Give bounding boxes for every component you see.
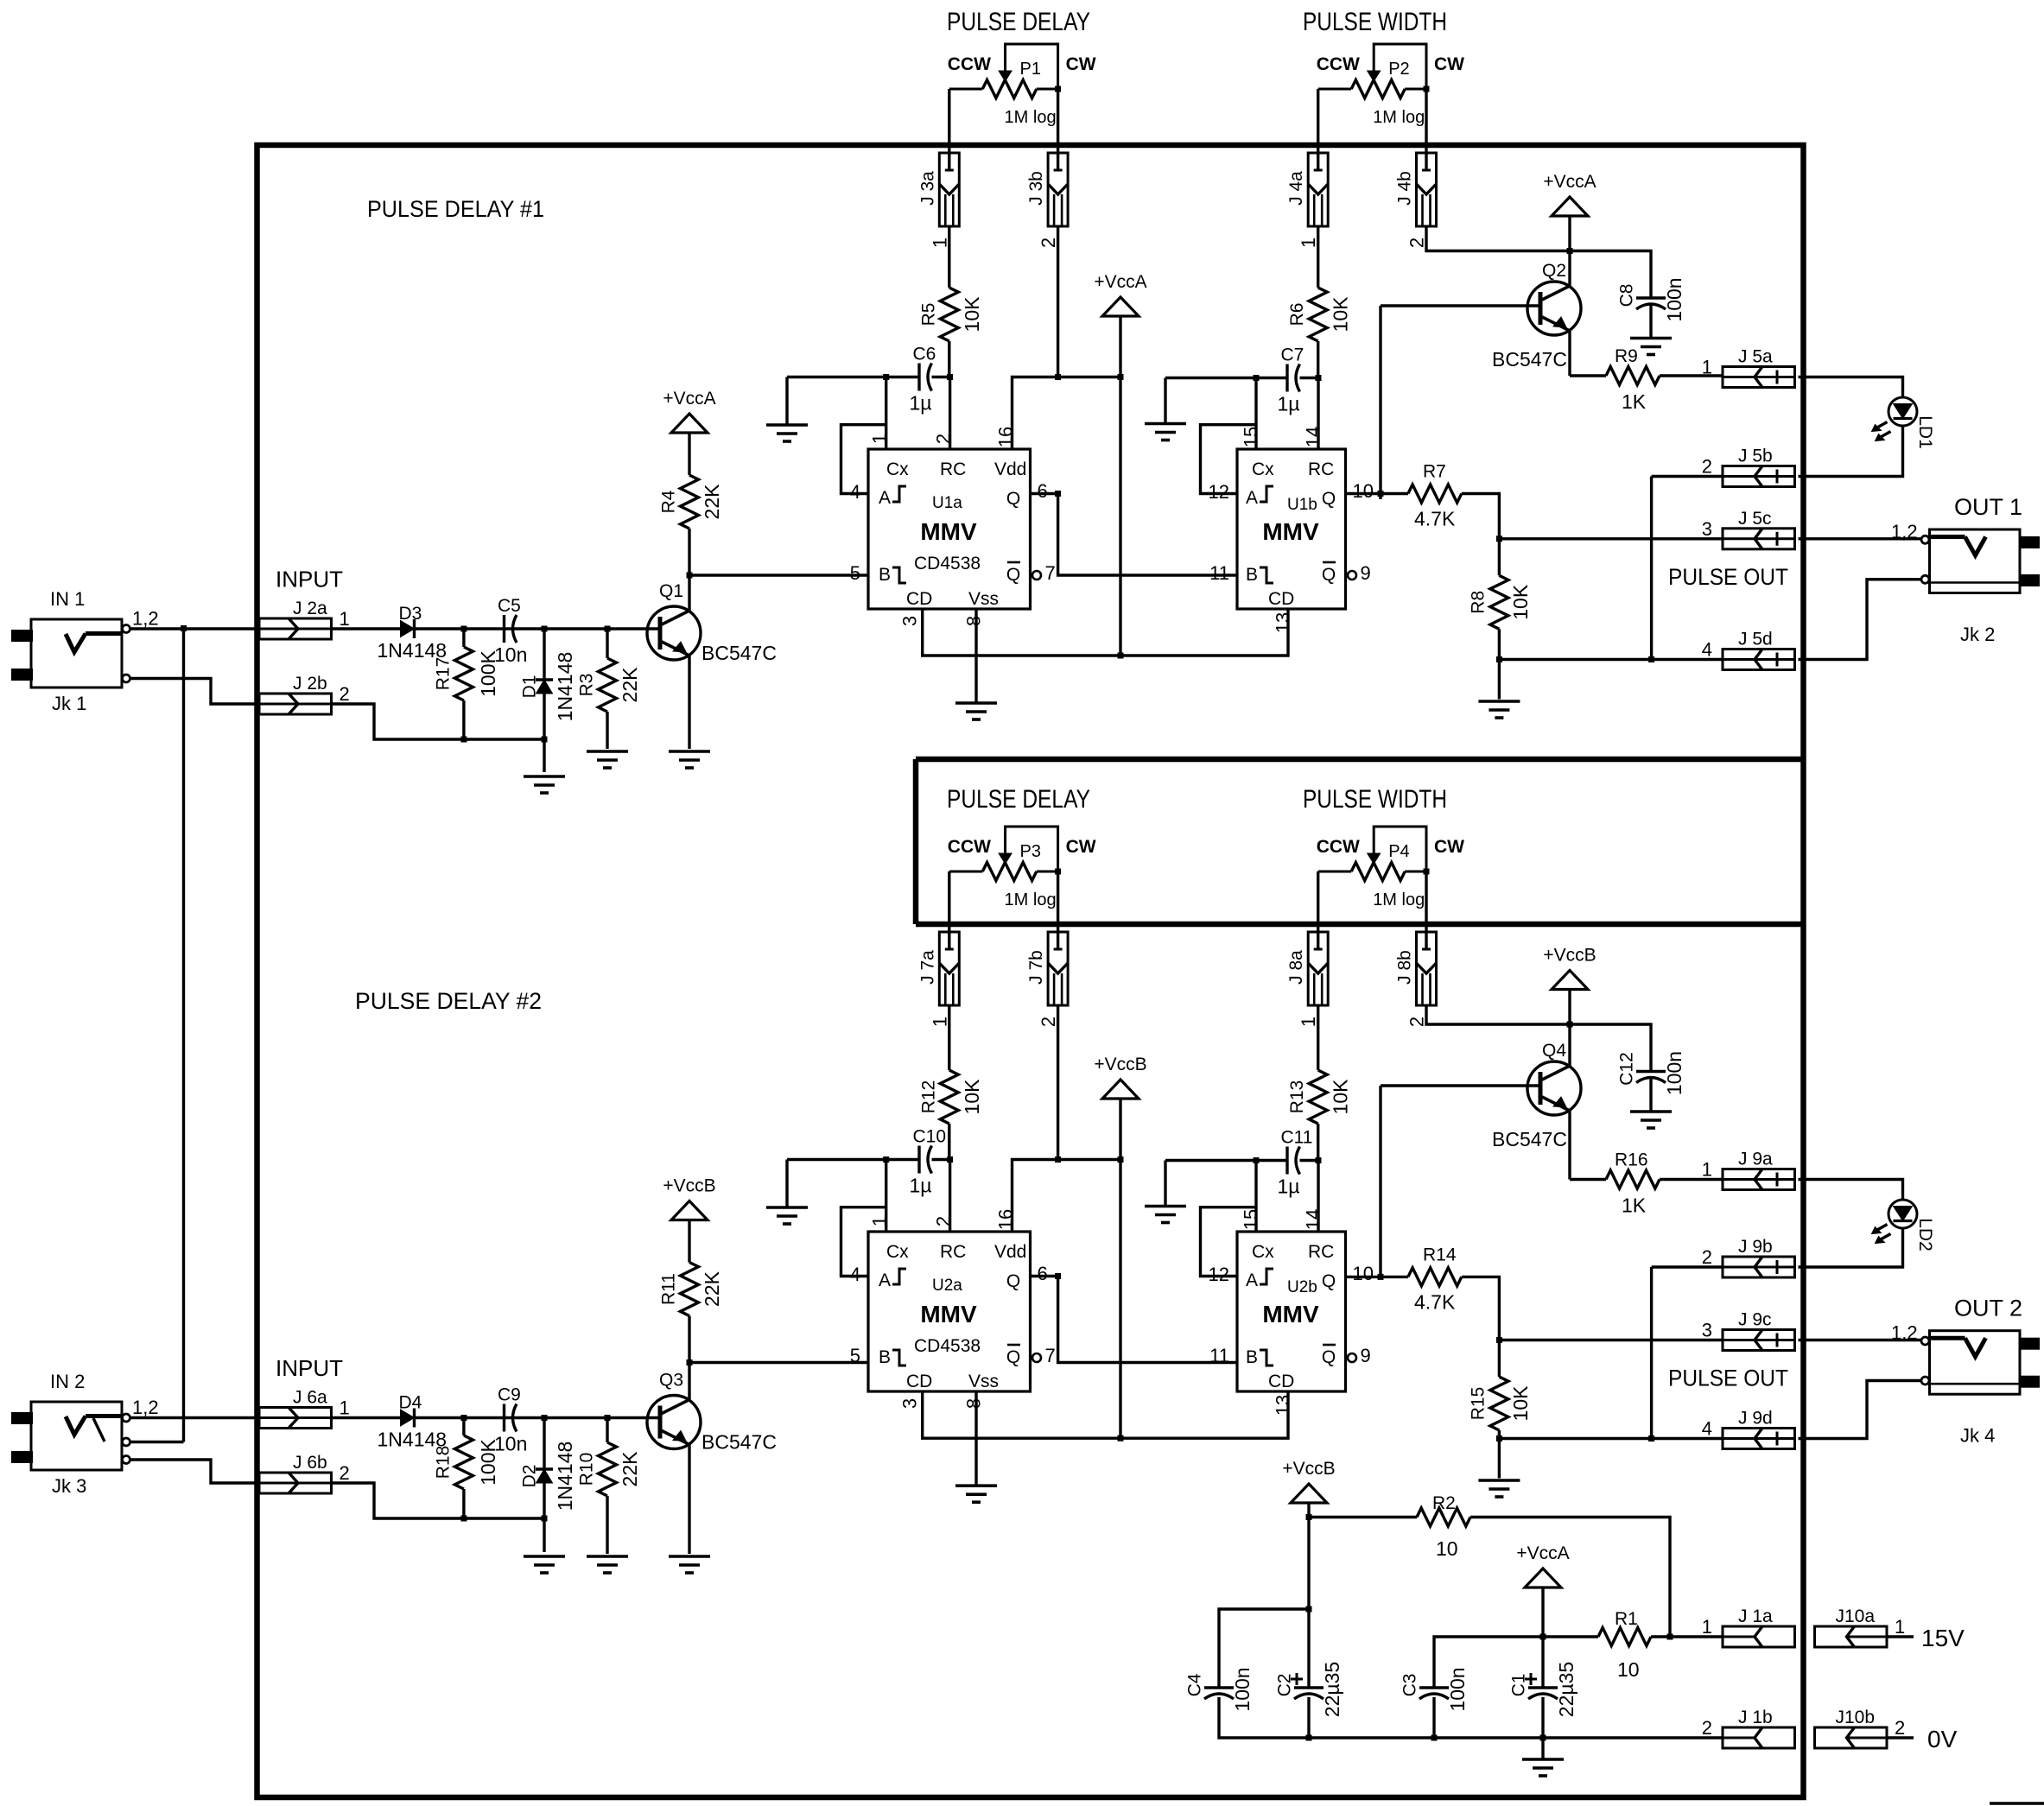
resistor R5 10K: [918, 288, 983, 341]
svg-text:15V: 15V: [1921, 1625, 1965, 1651]
svg-text:INPUT: INPUT: [276, 1355, 343, 1381]
svg-text:Q: Q: [1322, 1347, 1336, 1367]
wire C4 top to C2: [1219, 1609, 1309, 1688]
svg-text:PULSE DELAY: PULSE DELAY: [947, 785, 1090, 814]
wire: [1660, 1178, 1723, 1181]
wire J 6b return to rail: [332, 1483, 545, 1518]
svg-text:2: 2: [1702, 1246, 1712, 1268]
svg-text:1: 1: [929, 238, 950, 248]
power +VccA supply: [1516, 1543, 1569, 1587]
svg-text:7: 7: [1045, 562, 1056, 584]
svg-text:RC: RC: [1308, 459, 1334, 479]
resistor R13 10K: [1287, 1070, 1352, 1124]
svg-text:CCW: CCW: [1317, 837, 1360, 857]
wire: [1652, 475, 1723, 478]
svg-text:14: 14: [1303, 427, 1324, 447]
diode D2 1N4148: [520, 1442, 577, 1511]
wire Q2 emitter: [1568, 331, 1571, 376]
node link: [1648, 1435, 1654, 1442]
ground Vss U1a: [955, 703, 997, 719]
svg-text:3: 3: [1702, 518, 1712, 540]
wire: [1568, 990, 1571, 1025]
ground R10: [587, 1556, 628, 1573]
svg-text:J10b: J10b: [1836, 1708, 1876, 1727]
node CD to Vcc rail: [1118, 653, 1124, 659]
node Q/B link: [1055, 491, 1061, 497]
wire P4 CW to J 8b: [1425, 871, 1427, 950]
resistor R12 10K: [918, 1070, 983, 1124]
wire Jk 1 sleeve to J 2b: [130, 679, 259, 705]
svg-text:10: 10: [1353, 1263, 1374, 1284]
svg-text:10K: 10K: [1330, 1079, 1352, 1115]
svg-text:1: 1: [1702, 1159, 1712, 1181]
wire +VccB rail down to CD rail: [1119, 1099, 1121, 1439]
connector J 7b: [1026, 932, 1068, 1027]
node C2 gnd: [1306, 1735, 1312, 1741]
node D2 top: [542, 1415, 548, 1421]
ground Q3: [669, 1556, 710, 1573]
svg-text:10K: 10K: [961, 296, 983, 333]
wire J 2b return to rail: [332, 704, 545, 739]
svg-text:12: 12: [1209, 1264, 1229, 1285]
svg-text:+VccB: +VccB: [1282, 1459, 1335, 1479]
wire: [543, 629, 545, 680]
svg-text:Cx: Cx: [1252, 459, 1274, 479]
svg-text:BC547C: BC547C: [1492, 348, 1567, 371]
svg-text:J 4b: J 4b: [1395, 171, 1415, 206]
svg-text:Vss: Vss: [968, 1372, 999, 1391]
svg-text:PULSE WIDTH: PULSE WIDTH: [1303, 8, 1447, 36]
svg-text:J 1a: J 1a: [1738, 1606, 1773, 1626]
ground at C11: [1145, 1207, 1186, 1223]
ground supply: [1522, 1759, 1564, 1776]
node Q/B link: [1055, 1273, 1061, 1279]
wire: [606, 1418, 608, 1443]
svg-text:P1: P1: [1020, 60, 1041, 79]
LED LD1: [1872, 397, 1936, 449]
capacitor C3 100n: [1400, 1667, 1470, 1711]
wire Jk 3 sleeve to J 6b: [130, 1460, 259, 1483]
wire: [606, 629, 608, 658]
wire J 4a pin1 to R6: [1317, 226, 1319, 288]
svg-text:J 2b: J 2b: [293, 674, 327, 694]
wire J 7a pin1 to R12: [948, 1005, 950, 1070]
svg-text:R7: R7: [1423, 462, 1446, 482]
terminal Jk 3 tip: [123, 1414, 130, 1422]
wire ground stub: [785, 1160, 788, 1208]
connector J 7a: [917, 932, 959, 1027]
svg-text:R14: R14: [1423, 1245, 1457, 1264]
capacitor C12 100n: [1617, 1051, 1686, 1095]
svg-text:Q: Q: [1322, 1271, 1336, 1291]
wire pin1 down to U1a: [885, 377, 887, 450]
svg-text:CW: CW: [1066, 54, 1096, 74]
wire J 6a to D4: [332, 1416, 401, 1419]
connector J1b: [1702, 1708, 1795, 1748]
jack Jk 1 input: [11, 619, 122, 688]
svg-text:8: 8: [963, 1398, 985, 1409]
svg-text:2: 2: [1702, 1717, 1712, 1739]
svg-text:PULSE DELAY #1: PULSE DELAY #1: [367, 196, 544, 222]
svg-text:2: 2: [1038, 1017, 1059, 1027]
wire collector to B pin5 U2a: [689, 1361, 868, 1364]
ground R3: [587, 751, 628, 768]
svg-text:22µ35: 22µ35: [1321, 1662, 1343, 1717]
wire to C8: [1570, 251, 1651, 299]
wire 0V rail: [1219, 1697, 1723, 1738]
svg-text:J 2a: J 2a: [293, 599, 327, 618]
wire Jk 1 tip to J 2a: [130, 627, 259, 630]
wire Vdd pin16 to +Vcc rail: [1012, 1160, 1121, 1233]
wire Q1 collector: [688, 575, 690, 611]
wire: [1660, 374, 1723, 377]
svg-text:10K: 10K: [1509, 1385, 1532, 1422]
svg-text:C1: C1: [1509, 1674, 1529, 1697]
svg-text:CW: CW: [1434, 837, 1464, 857]
wire R5 to RC node: [948, 341, 950, 377]
svg-text:10: 10: [1617, 1658, 1640, 1681]
transistor Q2 BC547C: [1492, 261, 1581, 371]
connector J 3a: [917, 153, 959, 248]
wire Q U2a pin6 to B U2b pin11: [1031, 1277, 1238, 1363]
wire J 5b to J 5d link: [1650, 477, 1653, 660]
module border box 1+2 outline: [257, 145, 1804, 1797]
capacitor C7 1u: [1278, 345, 1304, 415]
svg-text:1: 1: [1298, 238, 1319, 248]
svg-text:BC547C: BC547C: [701, 642, 777, 664]
jack switch lever: [93, 1418, 105, 1442]
node Cx U2b pin15: [1254, 1157, 1260, 1163]
connector J 3b: [1026, 153, 1068, 248]
capacitor C2 22u35: [1275, 1662, 1344, 1717]
wire: [1498, 1439, 1501, 1479]
svg-text:CD: CD: [906, 1372, 932, 1391]
wire Vss U1a: [974, 609, 977, 703]
svg-text:PULSE OUT: PULSE OUT: [1668, 564, 1788, 590]
node R15 bottom: [1496, 1435, 1502, 1442]
wire base Q2: [1381, 304, 1540, 307]
power +VccB supply: [1282, 1459, 1335, 1503]
resistor R4 22K: [659, 475, 724, 529]
svg-text:MMV: MMV: [920, 1301, 977, 1328]
node +VccA supply: [1540, 1634, 1546, 1640]
svg-text:J 5b: J 5b: [1738, 447, 1773, 466]
connector J 4a: [1286, 153, 1328, 248]
svg-text:INPUT: INPUT: [276, 567, 343, 592]
svg-text:Q3: Q3: [659, 1371, 683, 1391]
connector J 9a: [1702, 1150, 1795, 1190]
svg-text:R6: R6: [1287, 303, 1307, 326]
wire pin12 loop U2b: [1201, 1207, 1257, 1277]
resistor R9 1K: [1606, 346, 1660, 413]
wire base rail down: [1379, 306, 1381, 499]
wire LD2 to J 9b: [1799, 1229, 1903, 1268]
svg-text:1N4148: 1N4148: [554, 1442, 576, 1511]
svg-text:1: 1: [1298, 1017, 1319, 1027]
wire: [1498, 1340, 1501, 1378]
svg-text:LD1: LD1: [1915, 415, 1935, 449]
wire J 8a pin1 to R13: [1317, 1005, 1319, 1070]
ground C12: [1630, 1112, 1672, 1128]
svg-text:Q1: Q1: [659, 581, 683, 601]
svg-text:Q: Q: [1006, 1347, 1020, 1367]
svg-text:2: 2: [933, 1216, 955, 1226]
wire pin15 down to U2b: [1254, 1161, 1257, 1233]
svg-text:A: A: [1246, 1271, 1258, 1290]
svg-text:J10a: J10a: [1836, 1606, 1876, 1626]
svg-text:14: 14: [1303, 1209, 1324, 1230]
wire J 9c to Jk 4 tip: [1799, 1339, 1922, 1341]
transistor Q4 BC547C: [1492, 1041, 1581, 1150]
svg-text:LD2: LD2: [1915, 1218, 1935, 1252]
svg-text:10K: 10K: [1509, 584, 1532, 620]
svg-text:3: 3: [1702, 1320, 1712, 1341]
wire J 7b pin2 down: [1057, 1005, 1059, 1160]
wire Q1 emitter: [688, 656, 690, 749]
jack Jk 3 input: [11, 1402, 122, 1470]
svg-text:C3: C3: [1400, 1674, 1420, 1697]
wire: [1498, 629, 1501, 659]
wire IN 1 normal to Jk 3 switch: [182, 629, 185, 1442]
svg-text:Q4: Q4: [1542, 1041, 1566, 1061]
svg-text:J 3b: J 3b: [1026, 171, 1046, 206]
wire R6 to RC node: [1317, 341, 1319, 378]
svg-text:D1: D1: [520, 675, 540, 699]
wire ground stub: [1164, 1161, 1166, 1207]
diode D1 1N4148: [520, 652, 577, 722]
svg-text:100n: 100n: [1663, 277, 1685, 321]
connector J 9c: [1702, 1310, 1795, 1351]
node R18 top: [460, 1415, 467, 1421]
connector J 5d: [1702, 630, 1795, 670]
potentiometer P1 1M log: [948, 44, 1096, 127]
wire: [1649, 1078, 1652, 1112]
svg-text:10K: 10K: [961, 1079, 983, 1115]
svg-text:PULSE DELAY: PULSE DELAY: [947, 8, 1090, 36]
svg-text:R1: R1: [1615, 1609, 1638, 1629]
svg-text:D3: D3: [399, 604, 422, 624]
wire normal from IN 1: [130, 1441, 184, 1443]
connector J 6a: [259, 1388, 350, 1429]
svg-text:1µ: 1µ: [910, 392, 932, 415]
wire: [1498, 660, 1501, 700]
node R8 top: [1496, 535, 1502, 542]
svg-text:J 6b: J 6b: [293, 1453, 327, 1473]
svg-text:Q: Q: [1006, 565, 1020, 585]
node Vcc rail: [1118, 1156, 1124, 1163]
svg-text:RC: RC: [1308, 1242, 1334, 1262]
svg-text:MMV: MMV: [1262, 1301, 1319, 1328]
wire C11 left: [1165, 1159, 1287, 1162]
svg-text:PULSE DELAY #2: PULSE DELAY #2: [355, 988, 542, 1014]
potentiometer P4 1M log: [1317, 827, 1464, 909]
svg-text:R2: R2: [1432, 1493, 1456, 1513]
ground at C7: [1145, 424, 1186, 440]
wire R1 to J1a: [1651, 1635, 1723, 1638]
wire: [462, 1418, 465, 1436]
node R8 bottom: [1496, 656, 1502, 662]
wire +VccB to C2: [1307, 1518, 1310, 1689]
svg-text:1: 1: [869, 1216, 891, 1226]
wire base Q4: [1381, 1084, 1540, 1087]
capacitor C11 1u: [1278, 1128, 1313, 1198]
svg-text:P2: P2: [1388, 60, 1409, 79]
wire Q3 collector: [688, 1363, 690, 1400]
connector J 9b: [1702, 1237, 1795, 1277]
svg-text:A: A: [879, 1271, 891, 1290]
wire P4 CCW to J 8a: [1317, 871, 1319, 950]
wire +VccA rail down to CD rail: [1119, 317, 1121, 656]
wire pin14 down to U2b: [1317, 1161, 1319, 1233]
connector J 9d: [1702, 1409, 1795, 1449]
node CD to Vcc rail: [1118, 1435, 1124, 1442]
wire: [1541, 1738, 1544, 1759]
wire: [1568, 216, 1571, 251]
svg-text:J 9b: J 9b: [1738, 1237, 1773, 1257]
node RC U2b pin14: [1316, 1157, 1322, 1163]
connector J 8b: [1395, 932, 1437, 1027]
svg-text:15: 15: [1241, 1209, 1262, 1230]
svg-text:R15: R15: [1469, 1387, 1489, 1421]
resistor R15 10K: [1469, 1377, 1533, 1430]
IC U1b MMV: [1209, 427, 1374, 633]
ground Vss U2a: [955, 1486, 997, 1502]
wire C to RC node: [1300, 377, 1318, 379]
svg-text:J 5a: J 5a: [1738, 347, 1773, 367]
node Vcc rail: [1118, 374, 1124, 380]
svg-text:J 6a: J 6a: [293, 1388, 327, 1408]
wire J 5c to Jk 2 tip: [1799, 537, 1922, 540]
svg-text:10n: 10n: [494, 643, 527, 666]
wire R13 to RC node: [1317, 1124, 1319, 1161]
wire pin15 down to U1b: [1254, 378, 1257, 450]
connector J10a: [1815, 1606, 1906, 1647]
svg-text:C4: C4: [1185, 1673, 1205, 1696]
wire C to RC node: [932, 1158, 950, 1161]
wire to C12: [1570, 1024, 1651, 1072]
wire Vss U2a: [974, 1391, 977, 1486]
svg-text:A: A: [879, 488, 891, 508]
wire: [1309, 1516, 1417, 1518]
wire P1 CCW to J 3a: [948, 89, 950, 171]
svg-text:+VccB: +VccB: [663, 1176, 715, 1196]
wire C7 left: [1165, 377, 1287, 379]
svg-text:2: 2: [340, 683, 350, 705]
svg-text:OUT 1: OUT 1: [1954, 494, 2022, 520]
svg-text:C10: C10: [913, 1127, 947, 1147]
ground R8: [1478, 701, 1520, 718]
node RC U1b pin14: [1316, 375, 1322, 381]
wire: [1541, 1587, 1544, 1637]
svg-text:J 1b: J 1b: [1738, 1708, 1773, 1727]
sheet corner mark bottom right: [1990, 1802, 2044, 1804]
ground at C6: [766, 425, 808, 441]
node R17 top: [460, 626, 467, 632]
svg-text:CCW: CCW: [948, 54, 991, 74]
svg-text:Cx: Cx: [886, 1242, 909, 1262]
potentiometer P2 1M log: [1317, 44, 1464, 127]
svg-text:MMV: MMV: [920, 518, 977, 545]
svg-text:Jk 2: Jk 2: [1960, 624, 1995, 645]
node R15 top: [1496, 1337, 1502, 1343]
resistor R14 4.7K: [1408, 1245, 1462, 1313]
node R3 top: [605, 626, 611, 632]
wire J 9b to J 9d link: [1650, 1267, 1653, 1439]
svg-text:3: 3: [899, 1398, 921, 1409]
capacitor C9 10n: [494, 1385, 527, 1455]
svg-text:J 3a: J 3a: [917, 171, 937, 206]
svg-text:4.7K: 4.7K: [1414, 1290, 1456, 1313]
node RC U2a pin2: [947, 1156, 953, 1163]
resistor R16 1K: [1606, 1150, 1660, 1217]
svg-text:B: B: [1246, 565, 1258, 585]
svg-text:C2: C2: [1275, 1674, 1295, 1697]
wire pin4 loop U2a: [841, 1207, 886, 1277]
svg-text:11: 11: [1209, 562, 1229, 584]
pot strip left edge: [913, 759, 919, 924]
svg-text:U2a: U2a: [932, 1277, 962, 1295]
svg-text:Q: Q: [1006, 489, 1020, 509]
wire: [606, 1496, 608, 1554]
svg-text:0V: 0V: [1927, 1726, 1958, 1752]
svg-text:Q: Q: [1322, 565, 1336, 585]
svg-text:16: 16: [995, 1209, 1017, 1230]
wire: [1649, 305, 1652, 339]
pot strip bottom edge (box2 top): [916, 922, 1804, 928]
IC U2a MMV CD4538: [850, 1209, 1056, 1409]
svg-text:1µ: 1µ: [1278, 393, 1300, 415]
ground D2: [524, 1556, 565, 1573]
ground D1: [524, 776, 565, 793]
wire ground stub: [785, 377, 788, 426]
svg-text:2: 2: [340, 1462, 350, 1484]
svg-text:PULSE WIDTH: PULSE WIDTH: [1303, 785, 1447, 814]
svg-text:J 7b: J 7b: [1026, 950, 1046, 985]
wire CD rail U2a/U2b: [923, 1391, 1288, 1438]
wire J 3a pin1 to R5: [948, 226, 950, 288]
wire D4 to Q3 base: [415, 1416, 661, 1419]
node base tap Q2: [1378, 491, 1384, 497]
wire: [606, 712, 608, 749]
svg-text:Jk 3: Jk 3: [52, 1475, 86, 1497]
svg-text:P3: P3: [1020, 842, 1041, 861]
terminal Jk 3 sleeve: [123, 1456, 130, 1464]
capacitor C4 100n: [1185, 1667, 1254, 1711]
resistor R8 10K: [1469, 575, 1533, 629]
wire: [688, 1220, 690, 1263]
svg-text:10K: 10K: [1330, 296, 1352, 333]
svg-text:R11: R11: [659, 1273, 679, 1305]
resistor R2 10: [1417, 1493, 1470, 1560]
resistor R6 10K: [1287, 288, 1352, 341]
svg-text:1: 1: [1702, 1616, 1712, 1638]
wire: [1570, 374, 1606, 377]
capacitor C1 22u35: [1509, 1662, 1578, 1717]
wire pin1 down to U2a: [885, 1160, 887, 1233]
svg-text:PULSE OUT: PULSE OUT: [1668, 1366, 1788, 1391]
potentiometer P3 1M log: [948, 827, 1096, 909]
svg-text:CCW: CCW: [1317, 54, 1360, 74]
svg-text:5: 5: [850, 562, 860, 584]
wire Q2 collector: [1568, 251, 1571, 287]
svg-text:1,2: 1,2: [132, 1397, 159, 1418]
svg-text:B: B: [879, 565, 891, 585]
wire J10b to 0V: [1887, 1736, 1914, 1739]
node Cx U1a pin1: [883, 374, 889, 380]
wire: [462, 629, 465, 647]
wire J 5d to Jk 2 sleeve: [1799, 580, 1922, 660]
jack Jk 4 output: [1930, 1331, 2041, 1395]
